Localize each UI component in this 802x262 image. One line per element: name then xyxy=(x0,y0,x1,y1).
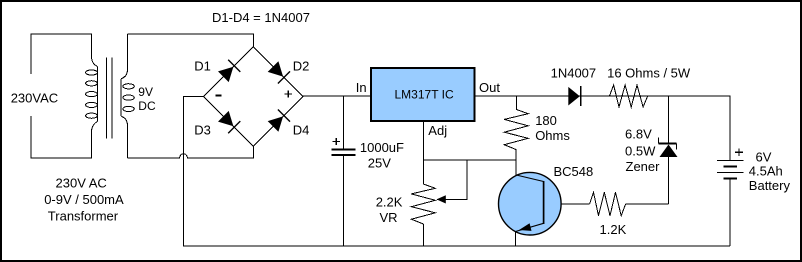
svg-text:1N4007: 1N4007 xyxy=(551,66,597,81)
svg-text:230V AC: 230V AC xyxy=(56,176,107,191)
svg-text:6V: 6V xyxy=(756,150,772,165)
svg-text:25V: 25V xyxy=(368,156,391,171)
svg-text:Out: Out xyxy=(479,80,500,95)
svg-text:0.5W: 0.5W xyxy=(625,144,656,159)
svg-text:Adj: Adj xyxy=(428,123,447,138)
svg-text:BC548: BC548 xyxy=(554,164,594,179)
svg-text:In: In xyxy=(356,80,367,95)
svg-text:D1-D4 = 1N4007: D1-D4 = 1N4007 xyxy=(212,10,310,25)
svg-text:9V: 9V xyxy=(138,85,153,99)
svg-text:Zener: Zener xyxy=(626,159,661,174)
svg-text:2.2K: 2.2K xyxy=(376,195,403,210)
svg-text:D3: D3 xyxy=(194,123,211,138)
svg-text:4.5Ah: 4.5Ah xyxy=(749,164,783,179)
svg-text:180: 180 xyxy=(535,113,557,128)
svg-text:Transformer: Transformer xyxy=(48,209,119,224)
svg-text:230VAC: 230VAC xyxy=(11,91,58,106)
svg-text:DC: DC xyxy=(138,99,156,113)
svg-text:D1: D1 xyxy=(194,58,211,73)
svg-text:6.8V: 6.8V xyxy=(625,126,652,141)
svg-text:Battery: Battery xyxy=(749,178,791,193)
svg-text:Ohms: Ohms xyxy=(535,128,570,143)
svg-text:0-9V / 500mA: 0-9V / 500mA xyxy=(44,192,124,207)
svg-text:1000uF: 1000uF xyxy=(360,140,404,155)
svg-text:LM317T IC: LM317T IC xyxy=(395,88,454,102)
svg-text:16 Ohms / 5W: 16 Ohms / 5W xyxy=(607,65,691,80)
svg-text:D2: D2 xyxy=(293,58,310,73)
svg-text:1.2K: 1.2K xyxy=(600,222,627,237)
svg-text:D4: D4 xyxy=(293,123,310,138)
svg-text:VR: VR xyxy=(380,210,398,225)
